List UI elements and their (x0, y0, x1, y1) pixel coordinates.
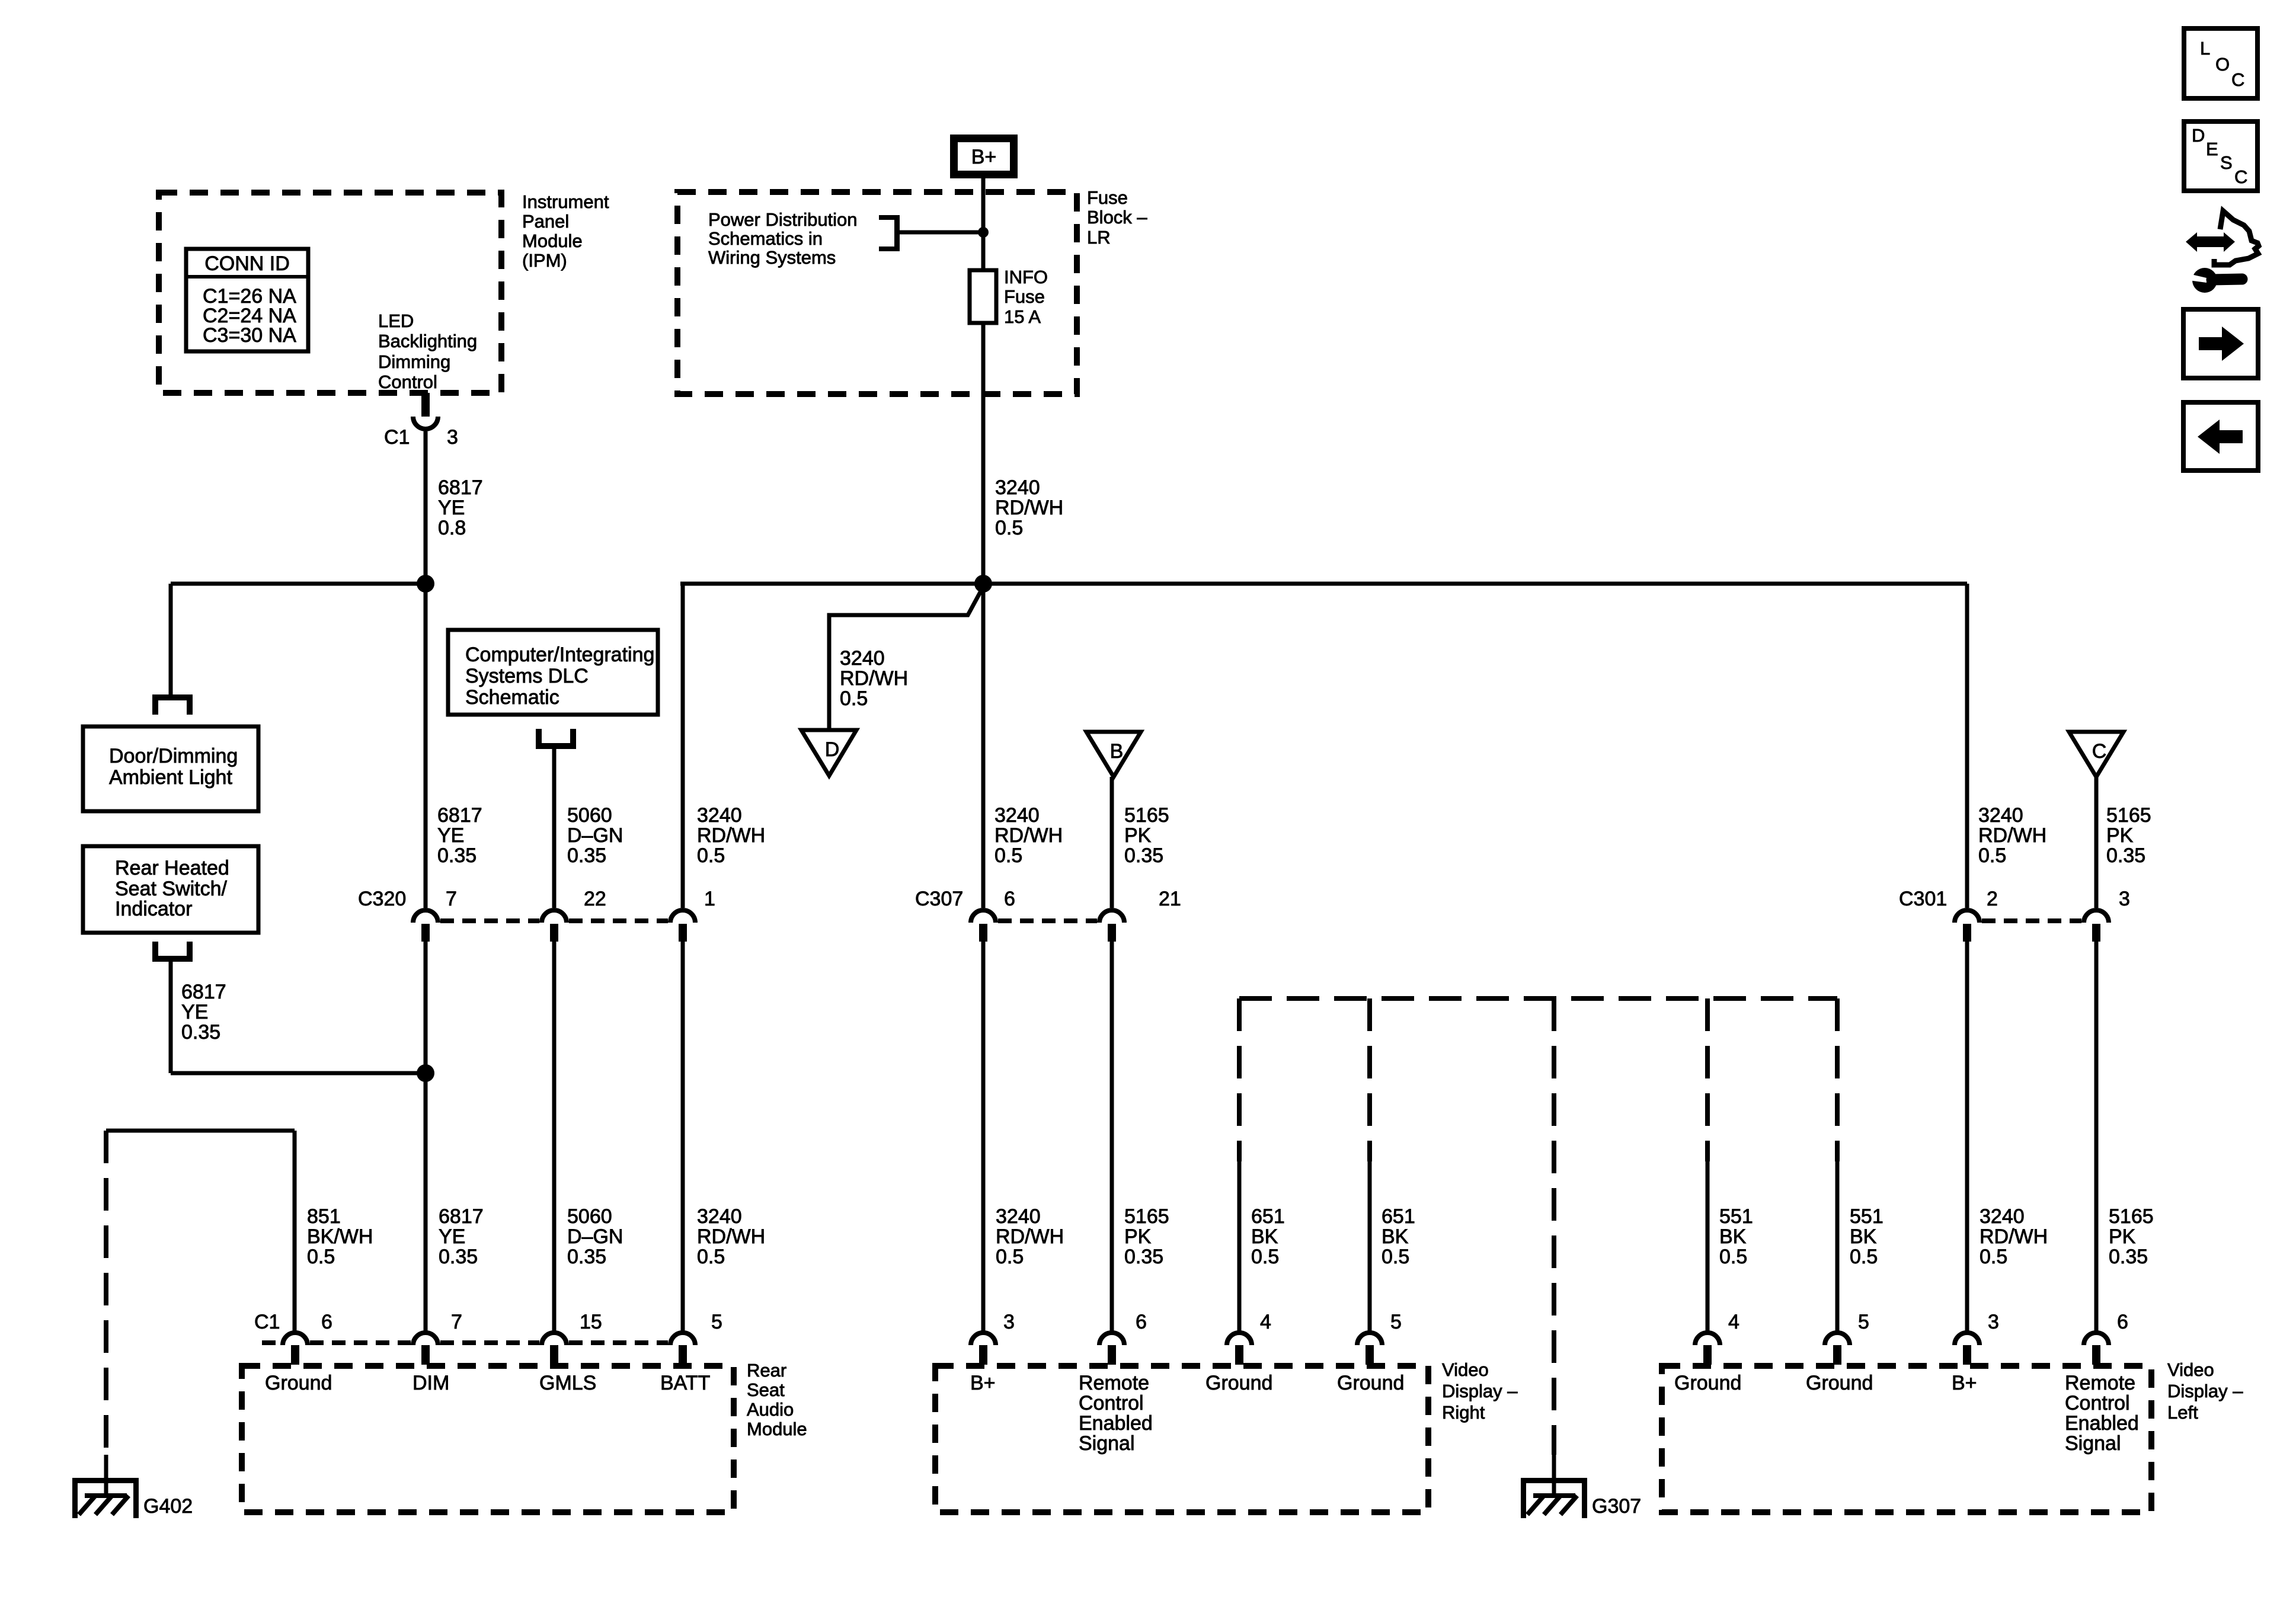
svg-text:5060: 5060 (567, 1205, 612, 1228)
wire: horizontal into junction (171, 1071, 426, 1076)
dashed drop to 651 BK pin 4 (1237, 998, 1242, 1161)
bracket out of DLC schematic box (536, 729, 576, 749)
pin number 6 (1004, 888, 1015, 910)
svg-text:22: 22 (584, 888, 606, 910)
svg-text:3240: 3240 (840, 647, 885, 670)
svg-text:0.5: 0.5 (697, 1246, 725, 1268)
svg-text:21: 21 (1159, 888, 1181, 910)
wire label 551 BK 0.5 (pin4) (1719, 1205, 1753, 1268)
pin number 1 (704, 888, 715, 910)
svg-text:G307: G307 (1592, 1495, 1641, 1518)
connector pin C320-22 (arc + stub) (542, 910, 567, 942)
svg-text:3: 3 (447, 426, 458, 449)
connector pin VDL pin 6 (arc + stub) (2084, 1333, 2109, 1365)
wire label 3240 RD/WH 0.5 (to C301-2) (1978, 804, 2046, 867)
svg-text:6: 6 (2117, 1311, 2128, 1333)
wire: 851 BK/WH down to module pin 6 (293, 1131, 297, 1331)
label: Video Display - Right (1442, 1359, 1518, 1423)
svg-text:Schematics in: Schematics in (708, 228, 823, 249)
module box: Instrument Panel Module (IPM), dashed (159, 193, 501, 393)
reference box: Computer/Integrating Systems DLC Schematic (448, 630, 658, 715)
svg-text:5: 5 (1390, 1311, 1402, 1333)
svg-text:RD/WH: RD/WH (1980, 1225, 2048, 1248)
wire label 6817 YE 0.8 (438, 476, 483, 539)
svg-text:GMLS: GMLS (539, 1372, 596, 1394)
svg-text:6: 6 (1004, 888, 1015, 910)
terminal labels: Ground DIM GMLS BATT (265, 1372, 710, 1394)
wire: 5060 D-GN 0.35 to C320 pin 22 (552, 748, 557, 908)
wire label 5165 PK 0.35 (upper C) (2106, 804, 2151, 867)
svg-text:B+: B+ (971, 146, 997, 168)
svg-text:551: 551 (1850, 1205, 1884, 1228)
connector C1 dashed link (audio module) (262, 1340, 668, 1345)
svg-text:B+: B+ (1952, 1372, 1977, 1394)
dashed drop to 551 BK pin 5 (1835, 998, 1840, 1161)
svg-text:3240: 3240 (697, 804, 742, 827)
svg-text:15 A: 15 A (1004, 306, 1041, 327)
icon: forward arrow box (2183, 309, 2258, 378)
wire label 5060 D-GN 0.35 (to GMLS) (567, 1205, 623, 1268)
svg-text:6817: 6817 (181, 981, 226, 1003)
wire: power bus 3240 RD/WH horizontal (680, 582, 1967, 586)
svg-text:0.5: 0.5 (995, 517, 1023, 539)
svg-text:0.35: 0.35 (437, 844, 477, 867)
connector pin C307-21 (arc + stub) (1099, 910, 1124, 942)
bracket lead for Power Distribution reference (879, 215, 900, 251)
svg-text:3240: 3240 (995, 476, 1040, 499)
svg-text:Fuse: Fuse (1087, 187, 1128, 208)
wire: fuse to main junction (981, 323, 986, 584)
wire label 3240 RD/WH 0.5 (to pin 1) (697, 804, 765, 867)
connector pin VDL pin 5 (arc + stub) (1825, 1333, 1850, 1365)
pin number 6 (321, 1311, 332, 1333)
svg-text:E: E (2206, 139, 2218, 159)
svg-text:G402: G402 (143, 1495, 193, 1518)
wire: 851 BK/WH horizontal (106, 1129, 295, 1133)
svg-text:0.5: 0.5 (996, 1246, 1024, 1268)
svg-text:Ground: Ground (1674, 1372, 1741, 1394)
wire: 551 BK to VDL pin 4 (1706, 1161, 1710, 1331)
svg-text:Ground: Ground (265, 1372, 332, 1394)
svg-text:Backlighting: Backlighting (378, 331, 477, 351)
wire label 5165 PK 0.35 (to VDR remote) (1124, 1205, 1169, 1268)
pin number 3 (1003, 1311, 1015, 1333)
off-page connector triangle B (1086, 732, 1141, 777)
svg-text:PK: PK (1124, 824, 1152, 847)
svg-text:C307: C307 (915, 888, 963, 910)
off-page connector triangle D (801, 730, 856, 776)
wire stub into G307 (1552, 1455, 1556, 1498)
svg-text:0.5: 0.5 (1251, 1246, 1279, 1268)
svg-text:C: C (2231, 69, 2244, 90)
svg-text:BK/WH: BK/WH (307, 1225, 373, 1248)
svg-text:S: S (2220, 152, 2233, 173)
svg-text:Ground: Ground (1205, 1372, 1272, 1394)
connector pin audio pin 15 (arc + stub) (542, 1333, 567, 1365)
svg-text:L: L (2200, 38, 2210, 59)
svg-text:6: 6 (321, 1311, 332, 1333)
svg-text:0.5: 0.5 (1978, 844, 2006, 867)
dashed drop to 551 BK pin 4 (1705, 998, 1710, 1161)
svg-text:D: D (2192, 125, 2205, 146)
junction dot 6817 bus (417, 575, 434, 593)
dashed ground reference bus (1239, 996, 1837, 1001)
wire label 3240 RD/WH 0.5 (to VDR B+) (996, 1205, 1064, 1268)
junction dot on B+ feed (978, 227, 989, 238)
svg-text:Ground: Ground (1806, 1372, 1873, 1394)
wire label 3240 RD/WH 0.5 (fuse output) (995, 476, 1063, 539)
svg-text:D: D (825, 738, 840, 761)
svg-text:1: 1 (704, 888, 715, 910)
svg-text:551: 551 (1719, 1205, 1753, 1228)
svg-text:Remote: Remote (2065, 1372, 2135, 1394)
module box: Fuse Block - LR, dashed (677, 192, 1077, 394)
svg-text:3240: 3240 (996, 1205, 1041, 1228)
connector pin C301-2 (arc + stub) (1955, 910, 1980, 942)
svg-text:YE: YE (437, 824, 464, 847)
svg-text:Computer/Integrating: Computer/Integrating (465, 644, 654, 666)
connector pin VDL pin 4 (arc + stub) (1695, 1333, 1720, 1365)
svg-text:Control: Control (2065, 1392, 2130, 1414)
pin number 15 (580, 1311, 602, 1333)
svg-text:4: 4 (1260, 1311, 1271, 1333)
module box: Rear Seat Audio Module, dashed (242, 1366, 734, 1512)
svg-text:0.35: 0.35 (1124, 844, 1163, 867)
svg-text:Seat Switch/: Seat Switch/ (115, 878, 228, 900)
terminal labels: Ground Ground B+ Remote Control Enabled Signal (1674, 1372, 2139, 1455)
svg-text:3: 3 (1988, 1311, 1999, 1333)
svg-text:Indicator: Indicator (115, 898, 192, 920)
connector pin C320-1 (arc + stub) (670, 910, 695, 942)
svg-text:5060: 5060 (567, 804, 612, 827)
connector pin C307-6 (arc + stub) (971, 910, 996, 942)
pin number 5 (711, 1311, 722, 1333)
pin number 2 (1987, 888, 1998, 910)
wire: 5165 PK from C to C301 pin 3 (2094, 777, 2099, 908)
connector C301 label (1899, 888, 1947, 910)
pin number 22 (584, 888, 606, 910)
svg-text:5165: 5165 (2106, 804, 2151, 827)
wire label 3240 RD/WH 0.5 (to VDL B+) (1980, 1205, 2048, 1268)
wire: C307-21 to Video Display Right pin 6 (1110, 942, 1114, 1331)
svg-text:Control: Control (378, 372, 437, 392)
svg-text:(IPM): (IPM) (522, 250, 567, 271)
pin number 5 (1858, 1311, 1869, 1333)
svg-text:Block –: Block – (1087, 207, 1147, 228)
junction dot at power bus (974, 575, 992, 593)
svg-text:BATT: BATT (660, 1372, 710, 1394)
svg-text:Schematic: Schematic (465, 686, 559, 709)
svg-text:BK: BK (1719, 1225, 1747, 1248)
svg-text:YE: YE (439, 1225, 465, 1248)
svg-text:651: 651 (1382, 1205, 1415, 1228)
wire: 551 BK to VDL pin 5 (1835, 1161, 1840, 1331)
wire label 3240 RD/WH 0.5 (to BATT) (697, 1205, 765, 1268)
label: INFO Fuse 15 A (1004, 267, 1048, 327)
wire: C307-6 to Video Display Right pin 3 (981, 942, 986, 1331)
svg-text:B+: B+ (970, 1372, 996, 1394)
svg-text:C: C (2092, 740, 2107, 763)
svg-text:Instrument: Instrument (522, 191, 609, 212)
wire label 651 BK 0.5 (pin4) (1251, 1205, 1285, 1268)
svg-text:O: O (2215, 54, 2230, 75)
svg-text:Rear Heated: Rear Heated (115, 857, 229, 879)
svg-text:Remote: Remote (1079, 1372, 1149, 1394)
off-page connector triangle C (2069, 732, 2124, 777)
wire: 6817 YE 0.8 from C1-3 down (424, 431, 428, 584)
svg-text:C: C (2234, 167, 2247, 187)
svg-text:15: 15 (580, 1311, 602, 1333)
svg-text:0.5: 0.5 (1980, 1246, 2007, 1268)
wire: 6817 YE 0.35 down to C320 pin 7 (424, 584, 428, 908)
svg-text:0.5: 0.5 (1850, 1246, 1878, 1268)
pin number 4 (1260, 1311, 1271, 1333)
label: Rear Seat Audio Module (747, 1360, 807, 1439)
label G307 (1592, 1495, 1641, 1518)
ground G402 (72, 1478, 139, 1518)
svg-text:Dimming: Dimming (378, 351, 450, 372)
label: Power Distribution Schematics in Wiring Systems (708, 209, 858, 268)
svg-text:0.5: 0.5 (994, 844, 1022, 867)
svg-text:RD/WH: RD/WH (1978, 824, 2046, 847)
connector pin VDR pin 6 (arc + stub) (1099, 1333, 1124, 1365)
terminal labels: B+ Remote Control Enabled Signal Ground Ground (970, 1372, 1404, 1455)
svg-text:6: 6 (1136, 1311, 1147, 1333)
svg-text:RD/WH: RD/WH (697, 1225, 765, 1248)
pin number 7 (446, 888, 457, 910)
connector pin C320-7 (arc + stub) (413, 910, 438, 942)
wire: 651 BK to VDR pin 4 (1237, 1161, 1242, 1331)
svg-text:651: 651 (1251, 1205, 1285, 1228)
wire: jog to D triangle (829, 587, 983, 730)
wire: C320-7 to module pin 7 (424, 942, 428, 1331)
wire: B+ to fuse (3240 RD/WH) (981, 178, 986, 270)
svg-text:0.35: 0.35 (439, 1246, 478, 1268)
svg-text:Display –: Display – (1442, 1381, 1518, 1401)
svg-text:0.35: 0.35 (2109, 1246, 2148, 1268)
svg-text:PK: PK (2109, 1225, 2136, 1248)
svg-text:Ground: Ground (1337, 1372, 1404, 1394)
pin number 4 (1728, 1311, 1739, 1333)
svg-text:PK: PK (2106, 824, 2134, 847)
svg-text:C301: C301 (1899, 888, 1947, 910)
dashed drop to G307 (1552, 998, 1556, 1455)
connector C1 pin 3 of IPM (stub + cup) (413, 393, 438, 429)
wire label 6817 YE 0.35 (to C320-7) (437, 804, 482, 867)
svg-text:PK: PK (1124, 1225, 1152, 1248)
svg-text:RD/WH: RD/WH (697, 824, 765, 847)
svg-text:6817: 6817 (438, 476, 483, 499)
svg-text:Wiring Systems: Wiring Systems (708, 247, 836, 268)
connector pin VDL pin 3 (arc + stub) (1955, 1333, 1980, 1365)
svg-text:Module: Module (747, 1419, 807, 1439)
svg-text:2: 2 (1987, 888, 1998, 910)
svg-text:LED: LED (378, 311, 414, 331)
svg-text:0.5: 0.5 (307, 1246, 335, 1268)
svg-text:Display –: Display – (2167, 1381, 2243, 1401)
bracket out of Rear Heated Seat Switch (152, 942, 193, 962)
svg-text:0.35: 0.35 (567, 1246, 606, 1268)
wire label 851 BK/WH 0.5 (307, 1205, 373, 1268)
connector C320 dashed link (440, 918, 668, 923)
label: C1 / 3 pin of IPM (384, 426, 458, 449)
svg-text:5165: 5165 (1124, 804, 1169, 827)
wire label 3240 RD/WH 0.5 (to C307-6) (994, 804, 1063, 867)
power symbol B+ (950, 135, 1018, 178)
svg-text:RD/WH: RD/WH (996, 1225, 1064, 1248)
dashed wire to G402 (104, 1131, 108, 1455)
module box: Video Display - Right, dashed (935, 1366, 1428, 1512)
wire: C320-1 to module pin 5 (BATT) (681, 942, 685, 1331)
junction dot 6817 at rear-heated tie-in (417, 1064, 434, 1082)
wire label 6817 YE 0.35 (rear heated) (181, 981, 226, 1044)
connector pin C301-3 (arc + stub) (2084, 910, 2109, 942)
component box: Door/Dimming Ambient Light (83, 726, 258, 811)
svg-text:Seat: Seat (747, 1379, 785, 1400)
svg-text:BK: BK (1850, 1225, 1877, 1248)
svg-text:4: 4 (1728, 1311, 1739, 1333)
svg-text:LR: LR (1087, 227, 1111, 248)
connector C301 dashed link (1982, 918, 2081, 923)
svg-text:3240: 3240 (994, 804, 1040, 827)
svg-text:Systems DLC: Systems DLC (465, 665, 589, 687)
wire label 5060 D-GN 0.35 (upper) (567, 804, 623, 867)
svg-text:0.5: 0.5 (840, 687, 868, 710)
svg-text:C1: C1 (384, 426, 410, 449)
svg-text:851: 851 (307, 1205, 341, 1228)
component box: Rear Heated Seat Switch/Indicator (83, 846, 258, 933)
svg-text:Control: Control (1079, 1392, 1144, 1414)
svg-text:Left: Left (2167, 1402, 2198, 1423)
svg-text:Enabled: Enabled (2065, 1412, 2139, 1435)
svg-text:3: 3 (2119, 888, 2130, 910)
svg-text:Rear: Rear (747, 1360, 786, 1381)
connector C1 label (audio module) (254, 1311, 280, 1333)
connector C307 label (915, 888, 963, 910)
wire: C301-3 to Video Display Left pin 6 (2094, 942, 2099, 1331)
svg-text:5: 5 (711, 1311, 722, 1333)
connector pin audio pin 5 (arc + stub) (670, 1333, 695, 1365)
svg-text:3240: 3240 (1980, 1205, 2025, 1228)
pin number 3 (1988, 1311, 1999, 1333)
svg-text:5165: 5165 (2109, 1205, 2154, 1228)
svg-text:C320: C320 (358, 888, 406, 910)
svg-text:CONN ID: CONN ID (204, 252, 290, 275)
connector pin audio pin 7 (arc + stub) (413, 1333, 438, 1365)
label: Video Display - Left (2167, 1359, 2243, 1423)
svg-text:Video: Video (1442, 1359, 1489, 1380)
label G402 (143, 1495, 193, 1518)
pin number 7 (451, 1311, 462, 1333)
wire label 6817 YE 0.35 (to DIM) (439, 1205, 484, 1268)
dashed drop to 651 BK pin 5 (1367, 998, 1372, 1161)
wire: bus right end down to C301 pin 2 (1965, 584, 1969, 908)
svg-text:0.35: 0.35 (567, 844, 606, 867)
svg-text:Door/Dimming: Door/Dimming (109, 745, 238, 767)
svg-text:5165: 5165 (1124, 1205, 1169, 1228)
svg-text:Enabled: Enabled (1079, 1412, 1153, 1435)
svg-text:Fuse: Fuse (1004, 286, 1045, 307)
svg-text:5: 5 (1858, 1311, 1869, 1333)
svg-text:RD/WH: RD/WH (995, 497, 1063, 519)
label: LED Backlighting Dimming Control (378, 311, 477, 392)
svg-text:0.8: 0.8 (438, 517, 466, 539)
wire: 651 BK to VDR pin 5 (1368, 1161, 1372, 1331)
svg-text:Module: Module (522, 231, 583, 251)
wire stub into G402 (104, 1455, 108, 1498)
icon: LOC box (2184, 28, 2257, 98)
pin number 5 (1390, 1311, 1402, 1333)
svg-text:3: 3 (1003, 1311, 1015, 1333)
svg-text:BK: BK (1251, 1225, 1278, 1248)
svg-text:3240: 3240 (697, 1205, 742, 1228)
icon: DESC box (2184, 121, 2257, 191)
wire label 3240 RD/WH 0.5 (to D) (840, 647, 908, 710)
wire: C320-22 to module pin 15 (552, 942, 557, 1331)
pin number 6 (1136, 1311, 1147, 1333)
wire: 6817 bus horizontal (171, 582, 426, 586)
svg-text:0.5: 0.5 (697, 844, 725, 867)
lead wire from Power Distribution bracket (900, 231, 983, 235)
svg-text:0.35: 0.35 (181, 1021, 220, 1044)
svg-text:6817: 6817 (439, 1205, 484, 1228)
ground G307 (1521, 1478, 1587, 1518)
bracket into Door/Dimming Ambient Light (152, 694, 193, 715)
svg-text:RD/WH: RD/WH (840, 667, 908, 690)
wire label 5165 PK 0.35 (to VDL remote) (2109, 1205, 2154, 1268)
connector C307 dashed link (998, 918, 1097, 923)
wire label 651 BK 0.5 (pin5) (1382, 1205, 1415, 1268)
svg-text:0.5: 0.5 (1382, 1246, 1409, 1268)
wire: C301-2 to Video Display Left pin 3 (1965, 942, 1969, 1331)
wire label 551 BK 0.5 (pin5) (1850, 1205, 1884, 1268)
wire: bus down to C307 pin 6 (981, 584, 986, 908)
svg-text:0.5: 0.5 (1719, 1246, 1747, 1268)
svg-text:7: 7 (451, 1311, 462, 1333)
svg-text:Signal: Signal (2065, 1432, 2121, 1455)
fuse INFO 15A (970, 270, 996, 323)
svg-text:Video: Video (2167, 1359, 2214, 1380)
svg-text:0.35: 0.35 (2106, 844, 2145, 867)
wire: bus corner down to C320 pin 1 (681, 584, 685, 908)
svg-text:D–GN: D–GN (567, 824, 623, 847)
svg-text:Audio: Audio (747, 1399, 794, 1420)
label: Fuse Block - LR (1087, 187, 1147, 248)
svg-text:Signal: Signal (1079, 1432, 1135, 1455)
connector pin VDR pin 4 (arc + stub) (1227, 1333, 1252, 1365)
CONN ID table (186, 249, 308, 351)
label: Instrument Panel Module (IPM) (522, 191, 609, 271)
svg-text:DIM: DIM (412, 1372, 449, 1394)
icon: back arrow box (2183, 402, 2258, 470)
wire: 6817 YE 0.35 from Rear Heated Seat Switch down (169, 962, 173, 1073)
connector pin VDR pin 3 (arc + stub) (971, 1333, 996, 1365)
pin number 21 (1159, 888, 1181, 910)
svg-text:YE: YE (181, 1001, 208, 1023)
svg-text:Right: Right (1442, 1402, 1485, 1423)
wire: 5165 PK from B to C307 pin 21 (1110, 777, 1114, 908)
svg-text:BK: BK (1382, 1225, 1409, 1248)
svg-text:C3=30 NA: C3=30 NA (203, 324, 296, 347)
pin number 3 (2119, 888, 2130, 910)
connector pin VDR pin 5 (arc + stub) (1357, 1333, 1382, 1365)
svg-text:6817: 6817 (437, 804, 482, 827)
svg-text:Ambient Light: Ambient Light (109, 766, 232, 789)
connector C320 label (358, 888, 406, 910)
wire label 5165 PK 0.35 (upper right B) (1124, 804, 1169, 867)
svg-text:YE: YE (438, 497, 465, 519)
pin number 6 (2117, 1311, 2128, 1333)
